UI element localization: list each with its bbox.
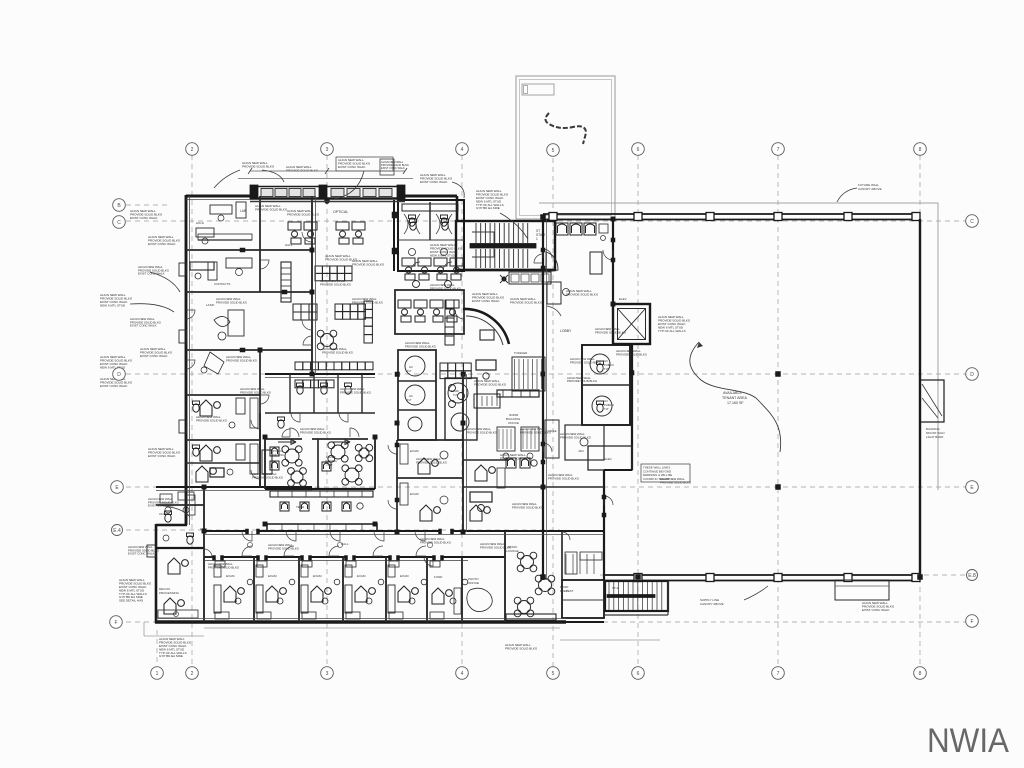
- norm building office: [497, 413, 539, 459]
- junction dot: [776, 372, 781, 377]
- svg-text:HC: HC: [409, 365, 413, 369]
- interior note i: [420, 537, 452, 544]
- grid line horizontal E: [126, 486, 966, 488]
- stair ST-2 outline below: [605, 581, 668, 615]
- junction dot: [636, 575, 641, 580]
- waiting room tables east: [322, 442, 373, 485]
- svg-text:EXIST CONC WALK: EXIST CONC WALK: [130, 324, 157, 328]
- frame shelf stack D: [364, 301, 372, 343]
- elevator label: [619, 297, 627, 301]
- exam room 2 counter: [256, 585, 263, 613]
- ne corner room fixtures: [410, 219, 449, 230]
- exam divider 5: [426, 557, 428, 622]
- room note r10: [208, 562, 240, 569]
- elec room: [588, 446, 632, 470]
- double line lobby wall: [546, 219, 548, 580]
- mid exam room 2 fixtures: [400, 483, 448, 521]
- waiting chairs row: [556, 223, 608, 241]
- dot x397 grid D: [395, 372, 400, 377]
- double line west wall: [189, 196, 191, 525]
- svg-text:PROVIDE SOLID BLKG: PROVIDE SOLID BLKG: [520, 430, 552, 434]
- exam room 5 cabinet: [388, 565, 395, 577]
- clinic west wall: [185, 195, 188, 525]
- tenant note box: [641, 464, 690, 482]
- hall 413 door arcs: [290, 413, 359, 437]
- toilet wet wall: [392, 200, 397, 271]
- grid line vertical 8: [919, 155, 921, 666]
- svg-text:1: 1: [156, 671, 159, 677]
- exam se desk: [470, 492, 492, 521]
- frame shelf row B: [293, 304, 317, 320]
- clinic southwest wall: [155, 524, 158, 623]
- svg-text:PROVIDE SOLID BLKG: PROVIDE SOLID BLKG: [512, 505, 544, 509]
- staff lounge table 2: [535, 575, 555, 595]
- contacts counter 2: [190, 262, 214, 279]
- grid circle bottom 8: [914, 667, 927, 680]
- office counter row: [497, 390, 539, 397]
- grid circle left C: [113, 216, 126, 229]
- svg-text:PROVIDE SOLID BLKG: PROVIDE SOLID BLKG: [268, 546, 300, 550]
- clinic top wall east segment: [403, 195, 457, 198]
- reading counter: [267, 524, 377, 531]
- left rooms 440-487: [186, 463, 260, 477]
- svg-text:NEW 6 MTL STUD: NEW 6 MTL STUD: [430, 253, 456, 257]
- hall note r5: [268, 543, 300, 550]
- tenant leader s-curve: [690, 342, 781, 452]
- svg-text:PROVIDE SOLID BLKG: PROVIDE SOLID BLKG: [570, 360, 602, 364]
- grid circle top 3: [321, 143, 334, 156]
- svg-text:EXIST CONC WALK: EXIST CONC WALK: [338, 165, 366, 169]
- corridor arc 1: [455, 310, 464, 319]
- staff lounge casework: [566, 552, 602, 574]
- wall grid E mid: [463, 486, 604, 488]
- interior note h: [595, 327, 627, 334]
- svg-text:PROVIDE SOLID BLKG: PROVIDE SOLID BLKG: [300, 430, 332, 434]
- interior note o: [616, 349, 648, 356]
- svg-text:ELEV: ELEV: [619, 297, 627, 301]
- toilet room block north: [398, 200, 464, 271]
- lasik equipment: [214, 310, 244, 340]
- decon counter: [158, 610, 198, 618]
- svg-text:PROVIDE SOLID BLKG: PROVIDE SOLID BLKG: [320, 282, 352, 286]
- interior note e: [405, 341, 437, 348]
- lobby reception counter: [546, 252, 558, 272]
- jamb dots mid walls: [202, 217, 615, 534]
- stair asterisk: [500, 275, 508, 283]
- pretest fixtures: [402, 258, 463, 288]
- exam divider 3: [342, 557, 344, 622]
- svg-text:PREP: PREP: [560, 589, 568, 593]
- svg-text:PROVIDE SOLID BLKG: PROVIDE SOLID BLKG: [416, 460, 448, 464]
- svg-text:EXIST CONC WALK: EXIST CONC WALK: [130, 216, 158, 220]
- interior note m: [512, 502, 544, 509]
- south sidewalk line: [144, 622, 560, 636]
- mid wall y531 to lounge: [505, 530, 562, 532]
- left margin note 2: [148, 235, 181, 246]
- svg-text:LOBBY: LOBBY: [560, 329, 572, 333]
- exam room 5 counter: [388, 585, 395, 613]
- corner dot x543 bottom: [541, 575, 546, 580]
- interior note d: [322, 347, 354, 354]
- wall below elevator: [613, 343, 650, 345]
- grid circle right C: [966, 215, 979, 228]
- stair ST-1 label: [536, 229, 546, 241]
- fp arcs: [562, 532, 570, 540]
- double line wall x312: [315, 196, 317, 374]
- bottom note 3: [862, 601, 895, 612]
- wall left room div 1: [186, 394, 260, 396]
- room note r7: [416, 457, 448, 464]
- waiting room walls: [265, 439, 375, 489]
- svg-text:NEW 6 MTL STUD: NEW 6 MTL STUD: [100, 303, 126, 307]
- public toilet turn circle 1: [590, 354, 610, 374]
- tenant leader arrowhead: [697, 342, 703, 348]
- svg-text:C: C: [117, 220, 121, 226]
- exam room 2 cabinet: [256, 565, 263, 577]
- left room fixtures: [200, 398, 258, 474]
- retail desk cluster 1: [288, 222, 317, 244]
- stair ST-1 center rail: [470, 244, 536, 249]
- svg-text:EXAM: EXAM: [313, 574, 322, 578]
- hall door jambs: [246, 529, 454, 534]
- exam divider 6: [461, 557, 463, 622]
- hall number tags: [247, 542, 432, 547]
- svg-text:PROVIDE SOLID BLKG: PROVIDE SOLID BLKG: [340, 390, 372, 394]
- svg-text:EXIST CONC WALK: EXIST CONC WALK: [100, 384, 128, 388]
- svg-text:6: 6: [637, 671, 640, 677]
- clinic-tenant wall mid: [631, 344, 633, 470]
- photo office room: [462, 531, 505, 622]
- lab desk: [210, 202, 246, 221]
- jan closet: [565, 425, 604, 460]
- decon north wall: [156, 547, 204, 549]
- interior note f: [466, 427, 498, 434]
- svg-text:PROVIDE SOLID BLKG: PROVIDE SOLID BLKG: [505, 647, 538, 651]
- public toilet fixture 2: [597, 401, 604, 412]
- svg-text:LAB: LAB: [240, 209, 246, 213]
- stair ST-1 treads upper: [476, 223, 528, 243]
- left margin note 3: [100, 293, 133, 307]
- grid circle left F: [110, 616, 123, 629]
- svg-text:PROVIDE SOLID BLKG: PROVIDE SOLID BLKG: [242, 164, 275, 168]
- canopy inner line: [520, 80, 612, 216]
- svg-text:D: D: [970, 372, 974, 378]
- wall exam left col east: [259, 350, 261, 487]
- left margin leader 3: [130, 304, 174, 312]
- double line exam bottom: [156, 618, 566, 620]
- wall lasik south: [186, 349, 312, 351]
- grid line vertical 3: [326, 155, 328, 666]
- grid line horizontal D: [126, 373, 966, 375]
- exam room 1 cabinet: [214, 565, 221, 577]
- future wall note: [837, 183, 882, 202]
- lounge counter: [506, 614, 556, 620]
- stair ST-2 treads: [609, 582, 662, 610]
- svg-text:2: 2: [191, 147, 194, 153]
- stair ST-1 treads lower: [476, 249, 528, 268]
- business office chairs: [506, 458, 537, 468]
- left margin note 5: [100, 355, 133, 369]
- exam rooms right of waiting: [463, 460, 509, 488]
- waiting room tables west: [270, 446, 306, 487]
- svg-text:PROVIDE SOLID BLKG: PROVIDE SOLID BLKG: [466, 430, 498, 434]
- exam row north wall: [204, 556, 470, 558]
- svg-text:2: 2: [191, 671, 194, 677]
- frame shelf rows south: [295, 380, 334, 388]
- svg-text:PROVIDE SOLID BLKG: PROVIDE SOLID BLKG: [560, 435, 592, 439]
- food prep: [560, 531, 577, 593]
- grid circle left E.4: [112, 525, 123, 536]
- left margin note 6: [148, 447, 181, 458]
- svg-text:EXAM: EXAM: [357, 574, 366, 578]
- svg-text:SEE DETAIL 4/A5: SEE DETAIL 4/A5: [119, 599, 143, 603]
- exam room 1 door: [242, 546, 252, 556]
- west wall window 2: [179, 330, 187, 343]
- available tenant area label: [722, 391, 747, 405]
- svg-text:JAN: JAN: [578, 449, 584, 453]
- svg-text:TLT: TLT: [604, 367, 609, 371]
- room note r9: [240, 387, 272, 394]
- grid line vertical 4: [461, 155, 463, 666]
- pretest note: [430, 243, 463, 257]
- tenant right wall bump-out: [920, 380, 944, 422]
- grid circle right E: [966, 481, 979, 494]
- tenant top wall: [543, 214, 920, 220]
- svg-text:PROVIDE SOLID BLKG: PROVIDE SOLID BLKG: [566, 292, 599, 296]
- interior note n: [570, 357, 602, 364]
- svg-text:D: D: [117, 372, 121, 378]
- storefront dimension line: [248, 168, 407, 174]
- exam room 1 counter: [214, 585, 221, 613]
- grab bar note: [567, 376, 597, 383]
- toilet fixture 2: [436, 214, 452, 234]
- exam room 5 chair: [398, 586, 418, 602]
- svg-text:PROVIDE SOLID BLKG: PROVIDE SOLID BLKG: [548, 476, 580, 480]
- left margin note 7: [119, 578, 152, 603]
- svg-text:CONTACTS: CONTACTS: [214, 282, 230, 286]
- toilet doors: [411, 262, 452, 271]
- grid line vertical 7: [777, 155, 779, 666]
- left margin note r3: [148, 497, 180, 508]
- wall grid E left: [156, 486, 312, 488]
- wall left room div 2: [186, 439, 260, 441]
- third left room: [196, 466, 224, 482]
- vending note: [510, 297, 543, 304]
- tenant bottom note: [700, 586, 768, 606]
- public toilet labels: [604, 359, 614, 411]
- interior note a: [216, 297, 248, 304]
- mid toilet fixture 2: [321, 383, 328, 394]
- upper wall y292 jambs: [240, 248, 287, 352]
- west wall window 3: [179, 420, 187, 433]
- hall door arcs: [242, 531, 425, 541]
- waiting labels: [272, 449, 337, 467]
- svg-text:FUND: FUND: [434, 575, 443, 579]
- storefront upper line: [238, 178, 413, 180]
- storefront sill: [250, 201, 405, 203]
- svg-text:PROVIDE SOLID BLKG: PROVIDE SOLID BLKG: [252, 475, 284, 479]
- lobby mid cabinet: [590, 252, 602, 274]
- junction dot: [918, 575, 923, 580]
- tenant right wall: [919, 219, 921, 578]
- double line hall wall: [204, 534, 604, 536]
- svg-text:LASIK: LASIK: [206, 303, 215, 307]
- svg-text:GYP BD EA SIDE: GYP BD EA SIDE: [159, 654, 183, 658]
- tenant bottom wall: [604, 575, 920, 581]
- bump-out note: [926, 427, 944, 439]
- south entry walk: [560, 622, 660, 640]
- canopy outline: [516, 76, 615, 219]
- svg-text:PROVIDE SOLID BLKG: PROVIDE SOLID BLKG: [480, 545, 512, 549]
- contacts desk: [208, 258, 252, 280]
- mid left storage room: [262, 417, 290, 474]
- grid circle top 2: [186, 143, 199, 156]
- interior note b: [226, 355, 258, 362]
- svg-text:LIGHT BAND: LIGHT BAND: [926, 435, 943, 439]
- dispensing desks: [398, 300, 459, 322]
- svg-text:5: 5: [552, 148, 555, 154]
- svg-text:PROVIDE SOLID BLKG: PROVIDE SOLID BLKG: [322, 350, 354, 354]
- lobby door arcs: [543, 249, 613, 505]
- svg-text:TENANT AREA: TENANT AREA: [722, 396, 747, 400]
- canopy squiggle note: [546, 113, 587, 144]
- canopy sign tick: [524, 86, 528, 94]
- lobby wall jambs: [541, 238, 615, 517]
- staff lounge: [506, 545, 519, 553]
- staff lounge table 3: [514, 597, 534, 617]
- svg-text:PROVIDE SOLID BLKG: PROVIDE SOLID BLKG: [240, 390, 272, 394]
- mid toilet fixture 3: [345, 383, 352, 394]
- bottom note 1: [159, 637, 192, 658]
- shelf area note 1: [325, 254, 358, 261]
- svg-text:3: 3: [326, 147, 329, 153]
- west wall step: [156, 524, 187, 526]
- exam divider 1: [253, 557, 255, 622]
- svg-text:PROVIDE SOLID BLKG: PROVIDE SOLID BLKG: [405, 344, 437, 348]
- public toilets block: [582, 345, 630, 425]
- mid toilet fixture 1: [297, 383, 304, 394]
- svg-text:PROVIDE SOLID BLKG: PROVIDE SOLID BLKG: [352, 300, 384, 304]
- left margin note r4: [128, 545, 160, 556]
- acct room west wall: [203, 487, 205, 622]
- grid line horizontal F: [126, 621, 966, 623]
- contacts counter: [198, 234, 252, 240]
- storefront band: [250, 185, 405, 199]
- left margin note 8: [100, 377, 133, 388]
- leader arc r16: [156, 505, 190, 517]
- grid circle bottom 7: [772, 667, 785, 680]
- svg-text:1: 1: [536, 237, 538, 241]
- staff stool circles: [449, 385, 465, 408]
- junction dot: [776, 485, 781, 490]
- svg-text:EXIST CONC WALK: EXIST CONC WALK: [862, 608, 890, 612]
- tenant top wall columns: [549, 213, 920, 221]
- west wall window 1: [179, 263, 187, 276]
- svg-text:EXIST CONC WALK: EXIST CONC WALK: [128, 552, 155, 556]
- junction dot: [541, 215, 546, 220]
- svg-text:PROVIDE SOLID BLKG: PROVIDE SOLID BLKG: [352, 262, 385, 266]
- svg-text:F: F: [114, 620, 117, 626]
- recep desk south of curve: [476, 360, 496, 379]
- business office hatch desk: [474, 394, 500, 408]
- svg-text:E.4: E.4: [113, 528, 121, 534]
- grid circle bottom 5: [547, 667, 560, 680]
- coffee bar: [545, 420, 559, 458]
- canopy sign rectangle: [522, 84, 554, 95]
- svg-text:17,160 SF: 17,160 SF: [727, 401, 744, 405]
- grid circle left D: [113, 368, 126, 381]
- svg-text:TLT: TLT: [407, 398, 412, 402]
- wall lab east: [259, 196, 261, 292]
- decon chair 1: [168, 558, 188, 574]
- toilet counter: [402, 204, 458, 211]
- svg-text:E.8: E.8: [968, 573, 976, 579]
- grid line vertical 5: [552, 158, 554, 666]
- svg-text:TECH: TECH: [296, 505, 304, 509]
- misc arc a: [303, 336, 312, 345]
- grid line vertical 2: [191, 155, 193, 666]
- svg-text:CANOPY ABOVE: CANOPY ABOVE: [700, 602, 724, 606]
- svg-text:HOLD: HOLD: [196, 221, 204, 225]
- room note r12: [560, 432, 592, 439]
- interior note g: [548, 473, 580, 480]
- svg-text:WAITING: WAITING: [272, 453, 284, 457]
- lavatory 1: [409, 249, 416, 256]
- hold room desk: [196, 221, 214, 244]
- svg-text:OPTICAL: OPTICAL: [333, 210, 348, 214]
- clinic top wall west segment: [186, 195, 252, 198]
- storefront under note 2: [287, 209, 320, 216]
- storefront center dot: [324, 198, 329, 203]
- grid circle top 8: [914, 143, 927, 156]
- exam room stools: [215, 561, 456, 604]
- exam room 4 counter: [345, 585, 352, 613]
- grid line vertical 1 stub: [156, 630, 158, 666]
- decon chair 2: [164, 598, 184, 614]
- grid circle right D: [966, 368, 979, 381]
- grid circle left E: [111, 481, 124, 494]
- left corridor arcs: [186, 310, 260, 479]
- svg-text:C: C: [970, 219, 974, 225]
- frame shelf long row: [295, 362, 373, 370]
- grid circle left B: [113, 199, 126, 212]
- exam divider 2: [298, 557, 300, 622]
- interior note j: [300, 427, 332, 434]
- lobby mid wall: [542, 304, 544, 580]
- grid circle bottom 1: [151, 667, 164, 680]
- svg-text:5: 5: [552, 671, 555, 677]
- southwest window: [147, 545, 156, 557]
- leader arc r15: [150, 272, 180, 292]
- vending corridor note: [472, 292, 505, 303]
- leader arc r17: [214, 170, 240, 188]
- tech counter band: [270, 491, 373, 497]
- svg-text:PROVIDE SOLID BLKG: PROVIDE SOLID BLKG: [595, 330, 627, 334]
- room note r11: [520, 427, 552, 434]
- top dim note: [286, 165, 319, 172]
- mid toilet rooms: [265, 374, 375, 413]
- grid circle bottom 6: [632, 667, 645, 680]
- lobby-tenant wall upper: [612, 219, 614, 304]
- storefront leader: [334, 171, 364, 199]
- double line top wall: [186, 199, 250, 201]
- tenant bottom wall columns: [634, 574, 920, 582]
- svg-text:ST-2: ST-2: [612, 586, 619, 590]
- svg-text:6: 6: [637, 147, 640, 153]
- stair ST-1 inner rail: [472, 232, 494, 257]
- clinic-tenant wall step: [604, 469, 632, 471]
- svg-text:PROCESSING: PROCESSING: [159, 591, 180, 595]
